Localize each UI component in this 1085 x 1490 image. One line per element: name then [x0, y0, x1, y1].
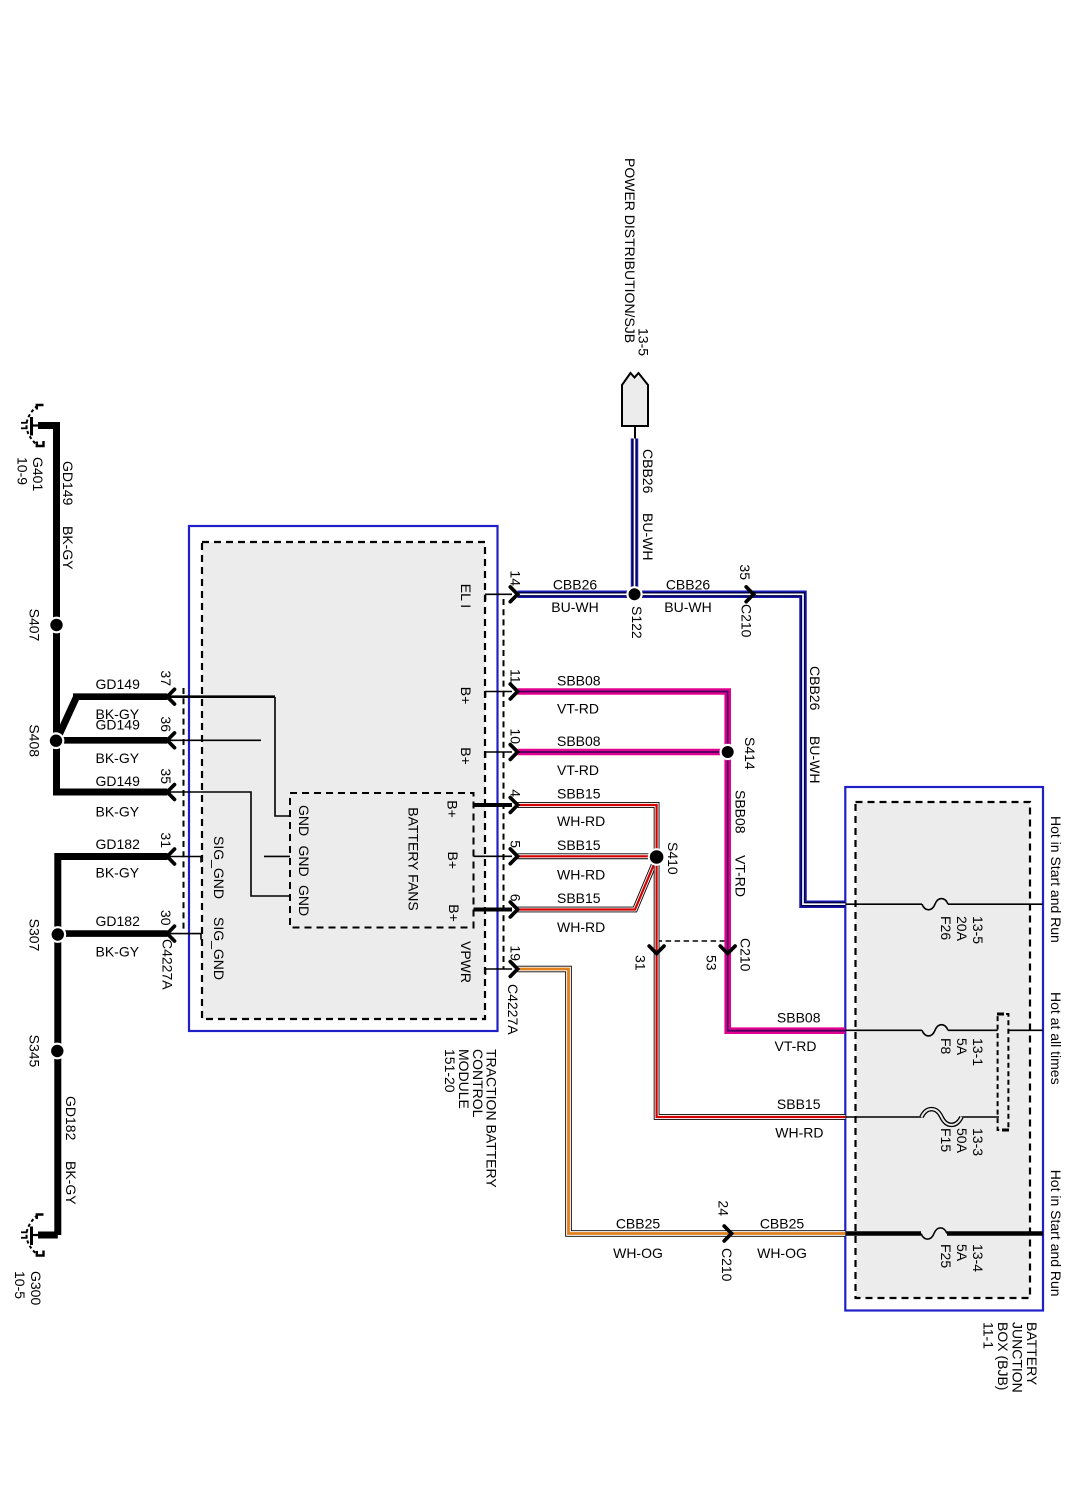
- svg-text:BK-GY: BK-GY: [96, 750, 140, 766]
- svg-text:GD149: GD149: [60, 461, 76, 506]
- svg-text:BK-GY: BK-GY: [96, 944, 140, 960]
- svg-text:S122: S122: [629, 606, 645, 639]
- svg-text:CBB26: CBB26: [807, 666, 823, 711]
- svg-text:F15: F15: [938, 1128, 954, 1152]
- svg-text:Hot in Start and Run: Hot in Start and Run: [1048, 1170, 1064, 1297]
- svg-text:C210: C210: [738, 938, 754, 972]
- svg-text:WH-RD: WH-RD: [557, 919, 605, 935]
- svg-text:10-5: 10-5: [12, 1271, 28, 1299]
- svg-text:14: 14: [508, 570, 524, 586]
- svg-text:24: 24: [716, 1200, 732, 1216]
- svg-text:EL I: EL I: [458, 584, 474, 608]
- svg-text:4: 4: [508, 789, 524, 797]
- svg-text:WH-OG: WH-OG: [613, 1245, 663, 1261]
- svg-text:B+: B+: [446, 904, 462, 922]
- svg-text:35: 35: [737, 564, 753, 580]
- svg-text:BK-GY: BK-GY: [60, 526, 76, 570]
- svg-text:30: 30: [158, 910, 174, 926]
- svg-text:20A: 20A: [954, 916, 970, 942]
- svg-text:SBB15: SBB15: [557, 837, 601, 853]
- svg-text:GD149: GD149: [96, 773, 141, 789]
- svg-text:B+: B+: [458, 747, 474, 765]
- svg-text:WH-RD: WH-RD: [557, 867, 605, 883]
- svg-text:F8: F8: [938, 1038, 954, 1055]
- svg-text:CBB25: CBB25: [616, 1216, 661, 1232]
- svg-text:CBB26: CBB26: [640, 449, 656, 494]
- svg-text:SBB08: SBB08: [733, 790, 749, 834]
- svg-text:VT-RD: VT-RD: [557, 701, 599, 717]
- svg-text:WH-RD: WH-RD: [775, 1124, 823, 1140]
- svg-text:F26: F26: [938, 916, 954, 940]
- svg-text:GND: GND: [296, 885, 312, 916]
- svg-text:13-1: 13-1: [970, 1038, 986, 1066]
- svg-text:C210: C210: [719, 1248, 735, 1282]
- svg-text:G401: G401: [30, 457, 46, 491]
- svg-text:BK-GY: BK-GY: [96, 804, 140, 820]
- svg-text:35: 35: [158, 768, 174, 784]
- svg-text:SBB15: SBB15: [557, 786, 601, 802]
- svg-text:GD182: GD182: [63, 1096, 79, 1141]
- svg-text:Hot at all times: Hot at all times: [1048, 992, 1064, 1085]
- svg-text:SBB15: SBB15: [557, 890, 601, 906]
- svg-text:5A: 5A: [954, 1038, 970, 1056]
- svg-text:GD149: GD149: [96, 717, 141, 733]
- svg-text:SBB08: SBB08: [557, 733, 601, 749]
- svg-text:B+: B+: [445, 800, 461, 818]
- svg-text:GD182: GD182: [96, 836, 141, 852]
- svg-text:B+: B+: [445, 852, 461, 870]
- svg-text:POWER DISTRIBUTION/SJB: POWER DISTRIBUTION/SJB: [622, 158, 638, 343]
- svg-text:BK-GY: BK-GY: [63, 1161, 79, 1205]
- svg-text:10-9: 10-9: [15, 457, 31, 485]
- svg-text:151-20: 151-20: [442, 1049, 458, 1093]
- svg-text:VT-RD: VT-RD: [557, 762, 599, 778]
- svg-text:CBB26: CBB26: [553, 577, 598, 593]
- svg-text:WH-OG: WH-OG: [757, 1245, 807, 1261]
- svg-text:JUNCTION: JUNCTION: [1010, 1322, 1026, 1393]
- svg-text:5: 5: [508, 840, 524, 848]
- svg-text:CBB26: CBB26: [666, 577, 711, 593]
- svg-text:BU-WH: BU-WH: [664, 599, 711, 615]
- svg-text:S407: S407: [27, 609, 43, 642]
- svg-text:13-5: 13-5: [636, 328, 652, 356]
- svg-text:C210: C210: [739, 604, 755, 638]
- svg-text:BATTERY FANS: BATTERY FANS: [406, 807, 422, 910]
- svg-text:WH-RD: WH-RD: [557, 813, 605, 829]
- svg-text:GND: GND: [296, 805, 312, 836]
- svg-text:13-4: 13-4: [970, 1244, 986, 1272]
- svg-text:50A: 50A: [954, 1128, 970, 1154]
- svg-text:BU-WH: BU-WH: [807, 736, 823, 783]
- svg-text:S307: S307: [27, 919, 43, 952]
- svg-text:GD182: GD182: [96, 913, 141, 929]
- svg-text:CBB25: CBB25: [760, 1216, 805, 1232]
- svg-text:C4227A: C4227A: [505, 984, 521, 1035]
- svg-text:C4227A: C4227A: [160, 939, 176, 990]
- svg-text:5A: 5A: [954, 1244, 970, 1262]
- svg-text:13-3: 13-3: [970, 1128, 986, 1156]
- svg-text:BU-WH: BU-WH: [640, 513, 656, 560]
- svg-text:SIG_GND: SIG_GND: [211, 917, 227, 980]
- svg-text:11-1: 11-1: [981, 1322, 997, 1349]
- svg-text:10: 10: [508, 728, 524, 744]
- svg-text:VT-RD: VT-RD: [775, 1038, 817, 1054]
- svg-text:31: 31: [158, 832, 174, 848]
- svg-text:GND: GND: [296, 845, 312, 876]
- svg-text:S345: S345: [27, 1035, 43, 1068]
- svg-text:F25: F25: [938, 1244, 954, 1268]
- svg-text:VT-RD: VT-RD: [733, 855, 749, 897]
- svg-text:SBB15: SBB15: [777, 1096, 821, 1112]
- svg-text:36: 36: [158, 716, 174, 732]
- svg-text:S408: S408: [27, 724, 43, 757]
- svg-text:BU-WH: BU-WH: [551, 599, 598, 615]
- svg-text:G300: G300: [28, 1271, 44, 1305]
- svg-text:VPWR: VPWR: [458, 941, 474, 983]
- svg-text:SBB08: SBB08: [777, 1009, 821, 1025]
- svg-text:37: 37: [158, 670, 174, 686]
- svg-text:19: 19: [508, 945, 524, 961]
- svg-text:31: 31: [633, 955, 649, 971]
- svg-text:GD149: GD149: [96, 676, 141, 692]
- svg-text:53: 53: [704, 955, 720, 971]
- svg-text:13-5: 13-5: [970, 916, 986, 944]
- svg-text:S414: S414: [742, 737, 758, 770]
- svg-text:SBB08: SBB08: [557, 673, 601, 689]
- svg-text:11: 11: [508, 669, 524, 684]
- svg-text:SIG_GND: SIG_GND: [211, 836, 227, 899]
- svg-text:BK-GY: BK-GY: [96, 865, 140, 881]
- svg-text:S410: S410: [665, 842, 681, 875]
- svg-text:B+: B+: [458, 687, 474, 705]
- svg-text:Hot in Start and Run: Hot in Start and Run: [1048, 816, 1064, 943]
- svg-text:6: 6: [508, 894, 524, 902]
